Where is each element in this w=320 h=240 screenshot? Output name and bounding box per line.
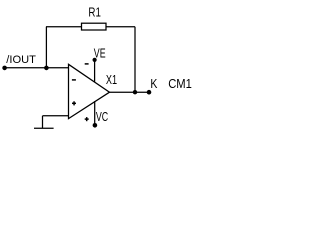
ground bar: [34, 127, 54, 129]
wire R1 right: [106, 26, 135, 28]
wire VC supply pin: [94, 101, 96, 125]
svg-text:R1: R1: [88, 4, 101, 19]
wire /IOUT to op-amp inverting input: [5, 67, 69, 69]
junction dot at feedback tap: [44, 66, 49, 71]
node VE dot: [93, 58, 97, 62]
op-amp X1 triangle: [69, 64, 110, 118]
junction dot feedback/output: [133, 90, 137, 94]
node K terminal dot: [147, 90, 152, 95]
op-amp non-inverting input marker: [72, 101, 76, 105]
node VC dot: [93, 123, 98, 128]
ground stem: [42, 116, 44, 129]
wire feedback right vertical: [134, 27, 136, 93]
node /IOUT terminal dot: [2, 66, 7, 71]
op-amp inverting input marker: [72, 79, 76, 81]
svg-text:K: K: [150, 76, 157, 91]
wire non-inverting input to ground: [43, 115, 69, 117]
wire VE supply pin: [94, 60, 96, 82]
wire feedback left vertical: [45, 27, 47, 68]
svg-text:/IOUT: /IOUT: [6, 54, 36, 66]
wire op-amp output: [110, 91, 150, 93]
resistor R1 body: [82, 23, 107, 30]
svg-text:CM1: CM1: [168, 76, 192, 91]
svg-text:X1: X1: [106, 72, 117, 87]
supply pin plus polarity marker: [85, 117, 89, 121]
wire to R1 left: [46, 26, 82, 28]
svg-text:VC: VC: [96, 109, 108, 124]
supply pin minus polarity marker: [85, 63, 89, 65]
